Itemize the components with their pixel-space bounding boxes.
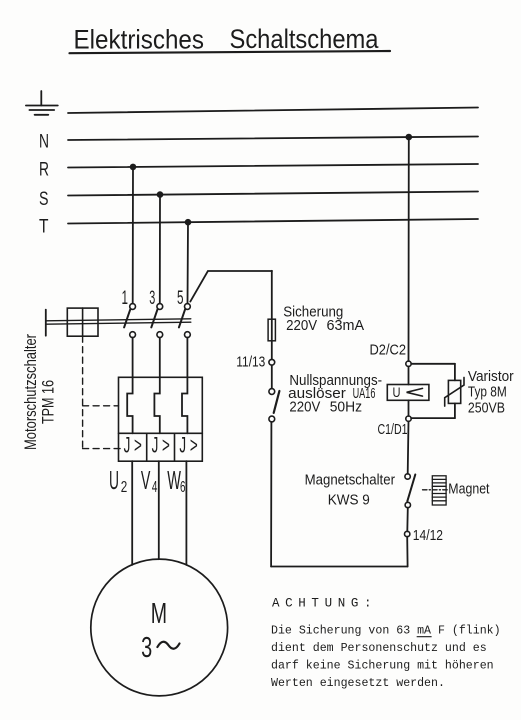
- magnet switch contact KWS9: [405, 474, 415, 508]
- junction S: [157, 191, 164, 198]
- wire: V4 to motor: [158, 461, 160, 559]
- thermal element phase 3: [182, 338, 187, 434]
- svg-text:5: 5: [177, 288, 184, 309]
- wire: coil to C1/D1: [408, 400, 410, 416]
- warning text mA underline: [417, 636, 431, 638]
- svg-text:dient dem Personenschutz und e: dient dem Personenschutz und es: [271, 642, 487, 655]
- svg-text:U: U: [109, 465, 119, 495]
- wire: varistor branch bottom: [411, 417, 455, 419]
- wire: S bus line: [68, 192, 478, 196]
- wire: varistor branch top: [411, 363, 455, 365]
- wire: D2/C2 to coil: [408, 367, 410, 385]
- terminal 11/13: [269, 359, 275, 365]
- svg-text:Typ 8M: Typ 8M: [468, 384, 507, 400]
- svg-text:14/12: 14/12: [413, 528, 443, 544]
- wire: drop from T to contact 5: [187, 222, 190, 303]
- junction N: [406, 134, 413, 141]
- svg-text:R: R: [39, 159, 49, 181]
- svg-text:250VB: 250VB: [468, 400, 505, 416]
- svg-text:Werten eingesetzt werden.: Werten eingesetzt werden.: [271, 677, 445, 690]
- dash-dot link to magnet: [423, 489, 448, 491]
- wire: C1/D1 down to magnet switch: [407, 421, 410, 473]
- svg-text:Varistor: Varistor: [468, 369, 514, 385]
- Sicherung label: [283, 305, 364, 334]
- wire: PE bus line: [68, 108, 478, 114]
- svg-text:Schaltschema: Schaltschema: [230, 24, 380, 54]
- Nullspannungsausloeser label: [288, 373, 382, 416]
- dashed trip linkage: [83, 336, 122, 448]
- svg-text:KWS 9: KWS 9: [328, 492, 370, 508]
- terminal 14/12: [405, 531, 410, 536]
- wire: N bus line: [68, 137, 478, 141]
- svg-text:1: 1: [122, 288, 129, 309]
- terminal U2 label: [109, 465, 127, 496]
- wire: drop from S to contact 3: [159, 195, 161, 304]
- switch contact 5 (pole 3): [179, 304, 190, 338]
- wire: W6 to motor: [185, 461, 187, 565]
- svg-text:J >: J >: [124, 433, 142, 458]
- svg-text:D2/C2: D2/C2: [370, 343, 407, 359]
- overload relay box TPM16: [119, 377, 203, 461]
- switch contact 3 (pole 2): [151, 304, 162, 338]
- svg-text:J >: J >: [152, 433, 170, 458]
- wire: varistor branch right: [454, 364, 456, 381]
- wire: down to fuse: [271, 271, 273, 360]
- svg-text:3: 3: [149, 288, 155, 309]
- ground (earth) symbol: [26, 91, 58, 115]
- wire: switch to 14/12: [406, 508, 409, 532]
- svg-text:C1/D1: C1/D1: [378, 422, 408, 438]
- svg-text:Elektrisches: Elektrisches: [74, 25, 205, 55]
- terminal D2/C2: [406, 361, 411, 366]
- svg-text:N: N: [39, 130, 49, 152]
- junction R: [130, 164, 137, 171]
- terminal V4 label: [141, 465, 158, 496]
- svg-text:ACHTUNG:: ACHTUNG:: [272, 597, 372, 611]
- contact of Nullspannungsausloeser: [269, 389, 280, 422]
- mechanical linkage double line: [46, 310, 191, 336]
- title: Elektrisches Schaltschema: [74, 24, 380, 55]
- svg-text:Die Sicherung von 63 mA F (fli: Die Sicherung von 63 mA F (flink): [271, 625, 501, 638]
- wire: 14/12 down to return: [406, 537, 408, 567]
- svg-text:Magnetschalter: Magnetschalter: [305, 472, 396, 488]
- svg-text:TPM 16: TPM 16: [39, 380, 58, 424]
- wire: drop from R to contact 1: [132, 167, 134, 304]
- thermal element phase 1: [127, 338, 132, 434]
- svg-text:S: S: [39, 188, 49, 210]
- svg-text:darf keine Sicherung mit höher: darf keine Sicherung mit höheren: [271, 660, 494, 673]
- svg-text:11/13: 11/13: [236, 355, 265, 371]
- wire: drop from N to D2/C2: [408, 137, 410, 361]
- svg-text:M: M: [151, 598, 167, 630]
- switch contact 1 (Motorschutzschalter pole 1): [124, 304, 135, 338]
- svg-text:Magnet: Magnet: [448, 482, 489, 498]
- terminal C1/D1: [406, 416, 411, 421]
- wire: T bus line: [68, 219, 478, 224]
- thermal element phase 2: [154, 338, 159, 434]
- motor M1 circle: [91, 559, 228, 696]
- svg-text:U: U: [393, 385, 401, 400]
- wire: R bus line: [68, 164, 478, 168]
- svg-text:V: V: [141, 465, 151, 495]
- wire: 11/13 to contact: [271, 365, 273, 388]
- wire: left branch down to bottom return: [270, 422, 272, 567]
- svg-text:50Hz: 50Hz: [330, 400, 362, 416]
- wire: bottom return line: [271, 566, 408, 568]
- Magnetschalter label: [305, 472, 396, 508]
- svg-text:220V: 220V: [286, 318, 317, 334]
- svg-text:4: 4: [152, 479, 158, 496]
- undervoltage coil U< (UA16): [387, 385, 429, 401]
- junction T: [185, 219, 192, 226]
- wire: branch from contact 5 to fuse: [190, 271, 272, 302]
- svg-text:2: 2: [121, 479, 128, 496]
- svg-text:T: T: [39, 215, 49, 237]
- svg-text:J >: J >: [179, 433, 197, 458]
- operator box of Motorschutzschalter: [67, 308, 98, 336]
- svg-text:Motorschutzschalter: Motorschutzschalter: [21, 334, 40, 450]
- title underline: [70, 51, 391, 53]
- svg-text:63mA: 63mA: [327, 318, 365, 334]
- svg-text:220V: 220V: [289, 400, 320, 416]
- terminal W6 label: [167, 465, 185, 496]
- varistor RV1: [445, 377, 464, 406]
- svg-text:6: 6: [180, 479, 186, 496]
- fuse F1 (Sicherung): [268, 319, 275, 341]
- magnet armature symbol: [432, 476, 446, 505]
- wire: U2 to motor: [131, 461, 133, 565]
- Varistor label: [468, 369, 514, 416]
- svg-text:3: 3: [141, 632, 152, 664]
